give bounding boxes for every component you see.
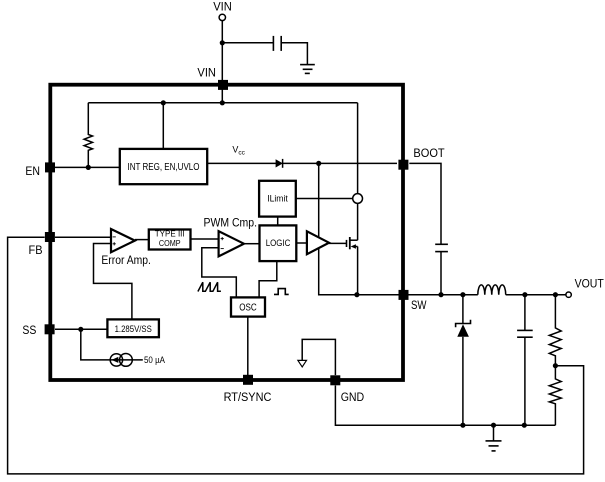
node rail / VIN [220,100,225,105]
svg-text:50 µA: 50 µA [144,355,165,365]
wire VIN terminal to internal rail [221,21,223,103]
node rail / regulator [161,100,166,105]
wire EN pin to regulator block [55,166,120,168]
wire inductor to VOUT [506,294,566,296]
wire SS to current source [81,329,143,360]
node EN / resistor [86,165,91,170]
pin SW [399,290,409,300]
wire FB pin to error amp [55,236,111,238]
node CBOOT / SW [438,292,443,297]
capacitor CIN [273,36,281,51]
wire internal top rail [88,102,357,104]
svg-text:OSC: OSC [239,303,257,314]
node COUT / SW [522,292,527,297]
svg-text:FB: FB [29,245,43,257]
pin BOOT [398,160,408,170]
op-amp error amplifier [111,229,135,252]
terminal VIN [219,14,225,20]
pin RT/SYNC [243,375,253,385]
wire rail to current sense [357,103,359,194]
svg-text:BOOT: BOOT [413,148,444,160]
wire ground stub [493,425,495,441]
capacitor COUT [517,330,533,337]
node ground rail / COUT [522,423,527,428]
node ground rail / ground symbol [491,423,496,428]
pin FB [45,232,55,242]
pin EN [45,162,55,172]
wire ILimit to sense [296,198,353,200]
resistor R2 (feedback bottom) [549,366,561,426]
wire GND internal hook [302,339,335,375]
wire COUT to ground rail [524,337,526,425]
wire catch diode to ground rail [462,337,464,425]
wire SW to COUT [524,295,526,331]
resistor R1 (feedback top) [549,295,561,366]
pin SS [45,324,55,334]
node ground rail / diode [460,423,465,428]
svg-text:RT/SYNC: RT/SYNC [224,392,272,404]
svg-text:ILimit: ILimit [267,194,288,204]
wire PWM comparator to LOGIC [244,243,260,245]
svg-text:LOGIC: LOGIC [266,238,291,248]
current source 50uA [110,354,132,367]
block U-REG INT REG, EN,UVLO [120,149,207,184]
wire feedback loop to FB pin [8,237,584,474]
node R1 / SW [553,292,558,297]
wire to input capacitor [222,42,273,44]
terminal VOUT [566,292,571,297]
block LOGIC [260,225,297,261]
wire sense to drain [357,203,359,240]
svg-text:VOUT: VOUT [575,278,604,290]
node driver return / source [354,292,359,297]
svg-text:PWM Cmp.: PWM Cmp. [204,218,258,230]
svg-text:Error Amp.: Error Amp. [101,255,150,267]
wire ramp to PWM comparator [202,248,237,298]
node diode / SW [460,292,465,297]
wire LOGIC to driver [296,242,307,244]
wire BOOT pin to bootstrap cap [409,163,441,244]
block 1.285V/SS [107,319,158,337]
current sense element [353,194,363,204]
inductor L1 [478,285,506,295]
wire error amp to comp [135,239,149,241]
wire SS pin to reference block [55,328,107,330]
IC boundary [50,85,403,380]
ground (output) [486,441,502,451]
svg-text:INT REG, EN,UVLO: INT REG, EN,UVLO [128,162,200,173]
node Vcc / driver supply [316,161,321,166]
svg-text:EN: EN [25,166,40,178]
transistor Q1 (high-side NMOS) [347,237,358,249]
svg-text:SW: SW [411,300,427,312]
svg-text:GND: GND [341,392,365,404]
node feedback tap [553,363,558,368]
wire reference to error amp [94,244,132,320]
pin GND [330,375,340,385]
wire input capacitor to ground [281,43,307,64]
wire diode to BOOT pin [283,162,397,164]
resistor (EN pull-up) [84,103,92,168]
wire rail to regulator block [162,103,164,149]
wire Vcc to diode [207,162,276,164]
diode (bootstrap) D1 [276,159,283,168]
sawtooth ramp symbol [198,282,221,291]
ground arrow (internal) [298,360,307,367]
gate driver [307,231,329,254]
wire driver to gate [329,242,347,244]
wire driver supply [318,163,320,237]
wire SW rail [357,294,478,296]
block TYPE III COMP [149,229,191,250]
wire driver return to SW [319,248,357,295]
wire bootstrap cap to SW [440,252,442,295]
svg-text:VIN: VIN [213,2,232,14]
diode D2 (catch, schottky) [456,320,471,337]
wire GND pin to ground rail [335,386,555,426]
pin VIN [218,80,228,90]
ground (input) [300,65,315,74]
wire comp to PWM comparator [191,238,219,240]
wire OSC to RT/SYNC pin [247,317,249,377]
block ILimit [259,181,296,217]
comparator PWM [219,231,244,256]
svg-text:1.285V/SS: 1.285V/SS [115,324,152,335]
wire SW to catch diode [462,295,464,324]
capacitor CBOOT [435,244,448,251]
node SS / current source [78,327,83,332]
wire ILimit to LOGIC [277,217,279,226]
block OSC [231,297,265,316]
clock pulse symbol [274,289,289,295]
node input-cap tap [220,40,225,45]
wire source to SW [357,247,359,295]
svg-text:COMP: COMP [159,238,181,248]
wire LOGIC to OSC [259,261,277,297]
svg-text:SS: SS [22,325,36,337]
svg-text:VIN: VIN [197,68,216,80]
